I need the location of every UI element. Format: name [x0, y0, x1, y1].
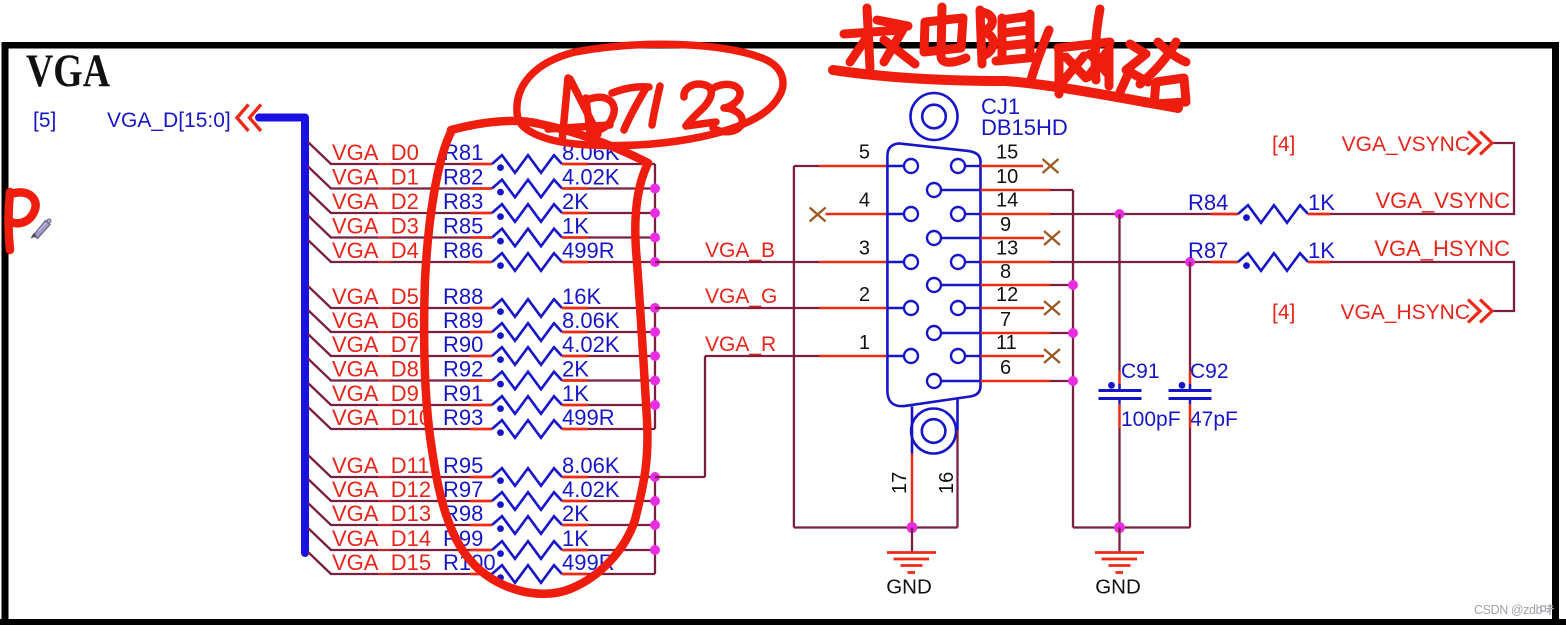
wire bus entry VGA_D5	[308, 286, 470, 308]
wire summing net red group (D11-D15)	[654, 477, 656, 574]
watermark glyph ya	[1541, 604, 1554, 615]
svg-text:4.02K: 4.02K	[562, 477, 620, 502]
junction	[650, 233, 660, 243]
wire R97 output	[588, 500, 655, 502]
wire pin 4 stub	[826, 213, 888, 216]
wire pin 12 stub	[981, 307, 1045, 310]
svg-text:VGA_D11: VGA_D11	[332, 453, 429, 478]
svg-text:3: 3	[859, 238, 870, 260]
wire bus entry VGA_D11	[308, 455, 470, 477]
resistor R90	[470, 347, 588, 365]
wire bus entry VGA_D2	[308, 191, 470, 213]
svg-text:R91: R91	[443, 381, 483, 406]
wire bus entry VGA_D8	[308, 359, 470, 381]
no-connect X pin 9	[1044, 231, 1060, 245]
svg-text:R87: R87	[1188, 238, 1228, 263]
svg-text:GND: GND	[1095, 576, 1141, 599]
wire C91 bottom lead	[1118, 404, 1121, 528]
connector pin 3	[887, 255, 918, 269]
svg-text:C92: C92	[1190, 360, 1229, 383]
svg-text:VGA_D2: VGA_D2	[332, 189, 419, 214]
junction	[650, 376, 660, 386]
ground symbol right	[1095, 553, 1144, 573]
connector pin 13	[951, 255, 981, 269]
annotation loop top stroke	[451, 121, 648, 163]
svg-text:VGA_D9: VGA_D9	[332, 381, 419, 406]
wire bus entry VGA_D15	[308, 552, 470, 574]
connector pin 5	[887, 159, 918, 173]
wire pin 15 stub	[981, 165, 1044, 168]
svg-text:17: 17	[889, 472, 911, 494]
junction	[650, 400, 660, 410]
svg-text:11: 11	[996, 332, 1017, 354]
svg-text:VGA_D4: VGA_D4	[332, 238, 419, 263]
svg-text:8: 8	[1000, 261, 1011, 283]
svg-text:1K: 1K	[562, 214, 589, 239]
svg-text:R90: R90	[443, 332, 483, 357]
wire bus entry VGA_D3	[308, 216, 470, 238]
svg-text:VGA_G: VGA_G	[705, 285, 777, 308]
svg-text:VGA_D3: VGA_D3	[332, 214, 419, 239]
svg-text:VGA_VSYNC: VGA_VSYNC	[1342, 133, 1470, 156]
no-connect X pin 12	[1044, 301, 1060, 315]
resistor R89	[470, 323, 588, 341]
annotation letter P	[9, 192, 36, 250]
schematic border frame right	[1552, 42, 1559, 622]
resistor R88	[470, 299, 588, 317]
resistor R93	[470, 420, 588, 438]
junction	[650, 520, 660, 530]
wire R81 output	[588, 163, 655, 165]
svg-text:9: 9	[1000, 214, 1011, 236]
junction	[650, 351, 660, 361]
connector pin 15	[951, 159, 981, 173]
wire pin 13 to R87	[981, 261, 1212, 264]
svg-text:16: 16	[936, 472, 958, 494]
svg-text:VGA: VGA	[26, 45, 110, 97]
svg-text:1K: 1K	[562, 381, 589, 406]
pencil cursor icon	[31, 219, 52, 239]
svg-text:499R: 499R	[562, 405, 615, 430]
svg-text:VGA_D14: VGA_D14	[332, 526, 431, 551]
wire R90 output	[588, 355, 655, 357]
svg-text:VGA_D0: VGA_D0	[332, 140, 419, 165]
wire pin 17	[911, 454, 914, 528]
svg-text:R97: R97	[443, 477, 483, 502]
wire R98 output	[588, 524, 655, 526]
svg-text:C91: C91	[1121, 360, 1160, 383]
wire pin 8 to ground rail	[981, 284, 1074, 287]
svg-text:4.02K: 4.02K	[562, 332, 620, 357]
annotation text AD7123	[548, 78, 742, 142]
wire R93 output	[588, 428, 655, 430]
wire R92 output	[588, 379, 655, 381]
wire pin 5 to GND loop	[794, 166, 888, 528]
junction C91 tap	[1115, 209, 1125, 219]
resistor R98	[470, 516, 588, 534]
annotation big loop around resistor network	[424, 132, 648, 594]
resistor R92	[470, 372, 588, 390]
svg-text:R88: R88	[443, 284, 483, 309]
junction	[1068, 376, 1078, 386]
connector pin 4	[887, 207, 918, 221]
svg-text:[4]: [4]	[1272, 301, 1295, 324]
wire R87 output to HSYNC port	[1330, 262, 1514, 311]
svg-text:8.06K: 8.06K	[562, 308, 620, 333]
svg-text:6: 6	[1000, 357, 1011, 379]
svg-text:5: 5	[859, 142, 870, 164]
svg-text:VGA_D7: VGA_D7	[332, 332, 419, 357]
wire pin 11 stub	[981, 355, 1045, 358]
connector pin 1	[887, 349, 918, 363]
svg-text:2: 2	[859, 284, 870, 306]
junction	[650, 327, 660, 337]
wire R82 output	[588, 187, 655, 189]
svg-text:4: 4	[859, 190, 870, 212]
wire VGA_G	[655, 307, 888, 309]
connector pin 2	[887, 301, 918, 315]
wire bus entry VGA_D1	[308, 167, 470, 189]
schematic border frame left	[2, 42, 9, 622]
svg-text:VGA_D10: VGA_D10	[332, 405, 431, 430]
wire bus entry VGA_D9	[308, 383, 470, 405]
wire R83 output	[588, 212, 655, 214]
svg-text:12: 12	[996, 284, 1018, 306]
wire VGA_B	[655, 261, 888, 263]
svg-text:VGA_D5: VGA_D5	[332, 284, 419, 309]
wire bus entry VGA_D13	[308, 503, 470, 525]
resistor R99	[470, 541, 588, 559]
svg-text:R93: R93	[443, 405, 483, 430]
resistor R86	[470, 253, 588, 271]
svg-text:R85: R85	[443, 214, 483, 239]
junction	[650, 257, 660, 267]
annotation chinese scrawl (weighted resistor network)	[844, 7, 1186, 104]
wire R84 output to VSYNC port	[1330, 143, 1514, 214]
svg-text:15: 15	[996, 142, 1018, 164]
connector CJ1 body	[887, 143, 980, 406]
port chevron <<	[237, 105, 261, 132]
wire bus entry VGA_D7	[308, 334, 470, 356]
wire VGA_R	[655, 356, 888, 477]
wire pin 10 to ground rail	[981, 190, 1074, 528]
wire C92 top lead	[1189, 262, 1191, 389]
wire R89 output	[588, 331, 655, 333]
junction	[650, 472, 660, 482]
annotation oval around AD7123	[517, 44, 783, 145]
svg-text:2K: 2K	[562, 189, 589, 214]
capacitor C91	[1099, 382, 1142, 404]
svg-text:VGA_VSYNC: VGA_VSYNC	[1376, 188, 1511, 213]
junction	[650, 496, 660, 506]
wire bus entry VGA_D6	[308, 310, 470, 332]
svg-text:GND: GND	[886, 576, 932, 599]
connector pin 11	[951, 349, 981, 363]
wire R91 output	[588, 404, 655, 406]
svg-text:R86: R86	[443, 238, 483, 263]
wire R85 output	[588, 236, 655, 238]
resistor R82	[470, 180, 588, 198]
resistor R95	[470, 468, 588, 486]
svg-text:[4]: [4]	[1272, 133, 1295, 156]
svg-text:VGA_B: VGA_B	[705, 239, 775, 262]
svg-text:13: 13	[996, 238, 1018, 260]
wire pin 6 to ground rail	[981, 380, 1074, 383]
wire R99 output	[588, 549, 655, 551]
wire summing net blue group (D0-D4)	[654, 164, 656, 262]
svg-text:499R: 499R	[562, 238, 615, 263]
wire pin 16	[956, 430, 958, 528]
resistor R91	[470, 396, 588, 414]
wire pin 14 to R84	[981, 213, 1212, 216]
svg-text:2K: 2K	[562, 357, 589, 382]
svg-text:VGA_D6: VGA_D6	[332, 308, 419, 333]
svg-text:14: 14	[996, 190, 1018, 212]
connector pin 10	[927, 183, 981, 197]
junction	[650, 303, 660, 313]
svg-text:7: 7	[1000, 309, 1011, 331]
wire R95 output	[588, 476, 655, 478]
wire C91 top lead	[1118, 214, 1120, 389]
no-connect X pin 11	[1044, 349, 1060, 363]
svg-text:VGA_D15: VGA_D15	[332, 550, 431, 575]
svg-text:VGA_HSYNC: VGA_HSYNC	[1340, 301, 1470, 324]
junction	[650, 545, 660, 555]
svg-text:VGA_D8: VGA_D8	[332, 357, 419, 382]
wire bus entry VGA_D12	[308, 479, 470, 501]
connector pin 6	[927, 374, 981, 388]
capacitor C92	[1169, 382, 1212, 404]
svg-text:VGA_D13: VGA_D13	[332, 501, 431, 526]
port chevron VSYNC	[1468, 132, 1492, 155]
wire left ground rail	[794, 526, 958, 528]
junction left GND	[907, 522, 918, 533]
resistor R84	[1211, 205, 1330, 223]
svg-text:VGA_HSYNC: VGA_HSYNC	[1374, 236, 1510, 261]
wire pin 7 to ground rail	[981, 332, 1074, 335]
wire R100 output	[588, 573, 655, 575]
resistor R81	[470, 155, 588, 173]
svg-text:VGA_R: VGA_R	[705, 333, 776, 356]
connector CJ1 bottom mounting ear	[911, 399, 957, 454]
resistor R97	[470, 492, 588, 510]
connector pin 9	[927, 231, 981, 245]
resistor R83	[470, 204, 588, 222]
svg-text:2K: 2K	[562, 501, 589, 526]
connector pin 12	[951, 301, 981, 315]
svg-text:R82: R82	[443, 165, 483, 190]
wire right GND stub	[1118, 528, 1120, 553]
schematic border frame top	[2, 42, 1559, 49]
no-connect X pin 4	[810, 208, 826, 222]
wire bus entry VGA_D4	[308, 240, 470, 262]
resistor R100	[470, 565, 588, 583]
schematic border frame bottom	[0, 619, 1566, 625]
junction right GND	[1114, 522, 1125, 533]
ground symbol left	[887, 553, 936, 573]
wire R88 output	[588, 307, 655, 309]
wire right ground rail	[1073, 526, 1190, 528]
connector pin 8	[927, 278, 981, 292]
svg-text:1K: 1K	[1308, 238, 1335, 263]
wire bus entry VGA_D10	[308, 407, 470, 429]
wire R86 output	[588, 261, 655, 263]
svg-text:DB15HD: DB15HD	[981, 115, 1068, 140]
junction	[1068, 328, 1078, 338]
svg-text:1: 1	[859, 332, 870, 354]
wire left GND stub	[911, 528, 913, 553]
connector pin 7	[927, 326, 981, 340]
junction	[1068, 280, 1078, 290]
svg-text:1K: 1K	[562, 526, 589, 551]
wire bus entry VGA_D0	[308, 142, 470, 164]
annotation underline stroke	[833, 70, 1178, 108]
svg-text:47pF: 47pF	[1190, 408, 1238, 431]
svg-text:VGA_D[15:0]: VGA_D[15:0]	[107, 109, 231, 132]
resistor R85	[470, 229, 588, 247]
svg-text:R95: R95	[443, 453, 483, 478]
connector pin 14	[951, 207, 981, 221]
junction	[650, 208, 660, 218]
wire summing net green group (D5-D10)	[654, 308, 656, 429]
svg-text:CSDN @zdb: CSDN @zdb	[1474, 603, 1543, 617]
svg-text:R83: R83	[443, 189, 483, 214]
svg-text:1K: 1K	[1308, 190, 1335, 215]
svg-text:R92: R92	[443, 357, 483, 382]
wire pin 9 stub	[981, 237, 1045, 240]
svg-text:16K: 16K	[562, 284, 601, 309]
junction C92 tap	[1185, 257, 1195, 267]
svg-text:8.06K: 8.06K	[562, 453, 620, 478]
svg-text:R84: R84	[1188, 190, 1228, 215]
svg-text:4.02K: 4.02K	[562, 165, 620, 190]
no-connect X pin 15	[1043, 159, 1059, 173]
svg-text:R89: R89	[443, 308, 483, 333]
port chevron HSYNC	[1468, 300, 1492, 323]
svg-text:10: 10	[996, 166, 1018, 188]
svg-text:[5]: [5]	[33, 109, 56, 132]
wire C92 bottom lead	[1189, 404, 1192, 528]
svg-text:VGA_D12: VGA_D12	[332, 477, 431, 502]
wire bus entry VGA_D14	[308, 528, 470, 550]
junction	[650, 184, 660, 194]
bus VGA_D[15:0]	[259, 118, 305, 554]
svg-text:VGA_D1: VGA_D1	[332, 165, 419, 190]
connector CJ1 top mounting ear	[911, 93, 958, 140]
svg-text:100pF: 100pF	[1121, 408, 1181, 431]
resistor R87	[1211, 253, 1330, 271]
